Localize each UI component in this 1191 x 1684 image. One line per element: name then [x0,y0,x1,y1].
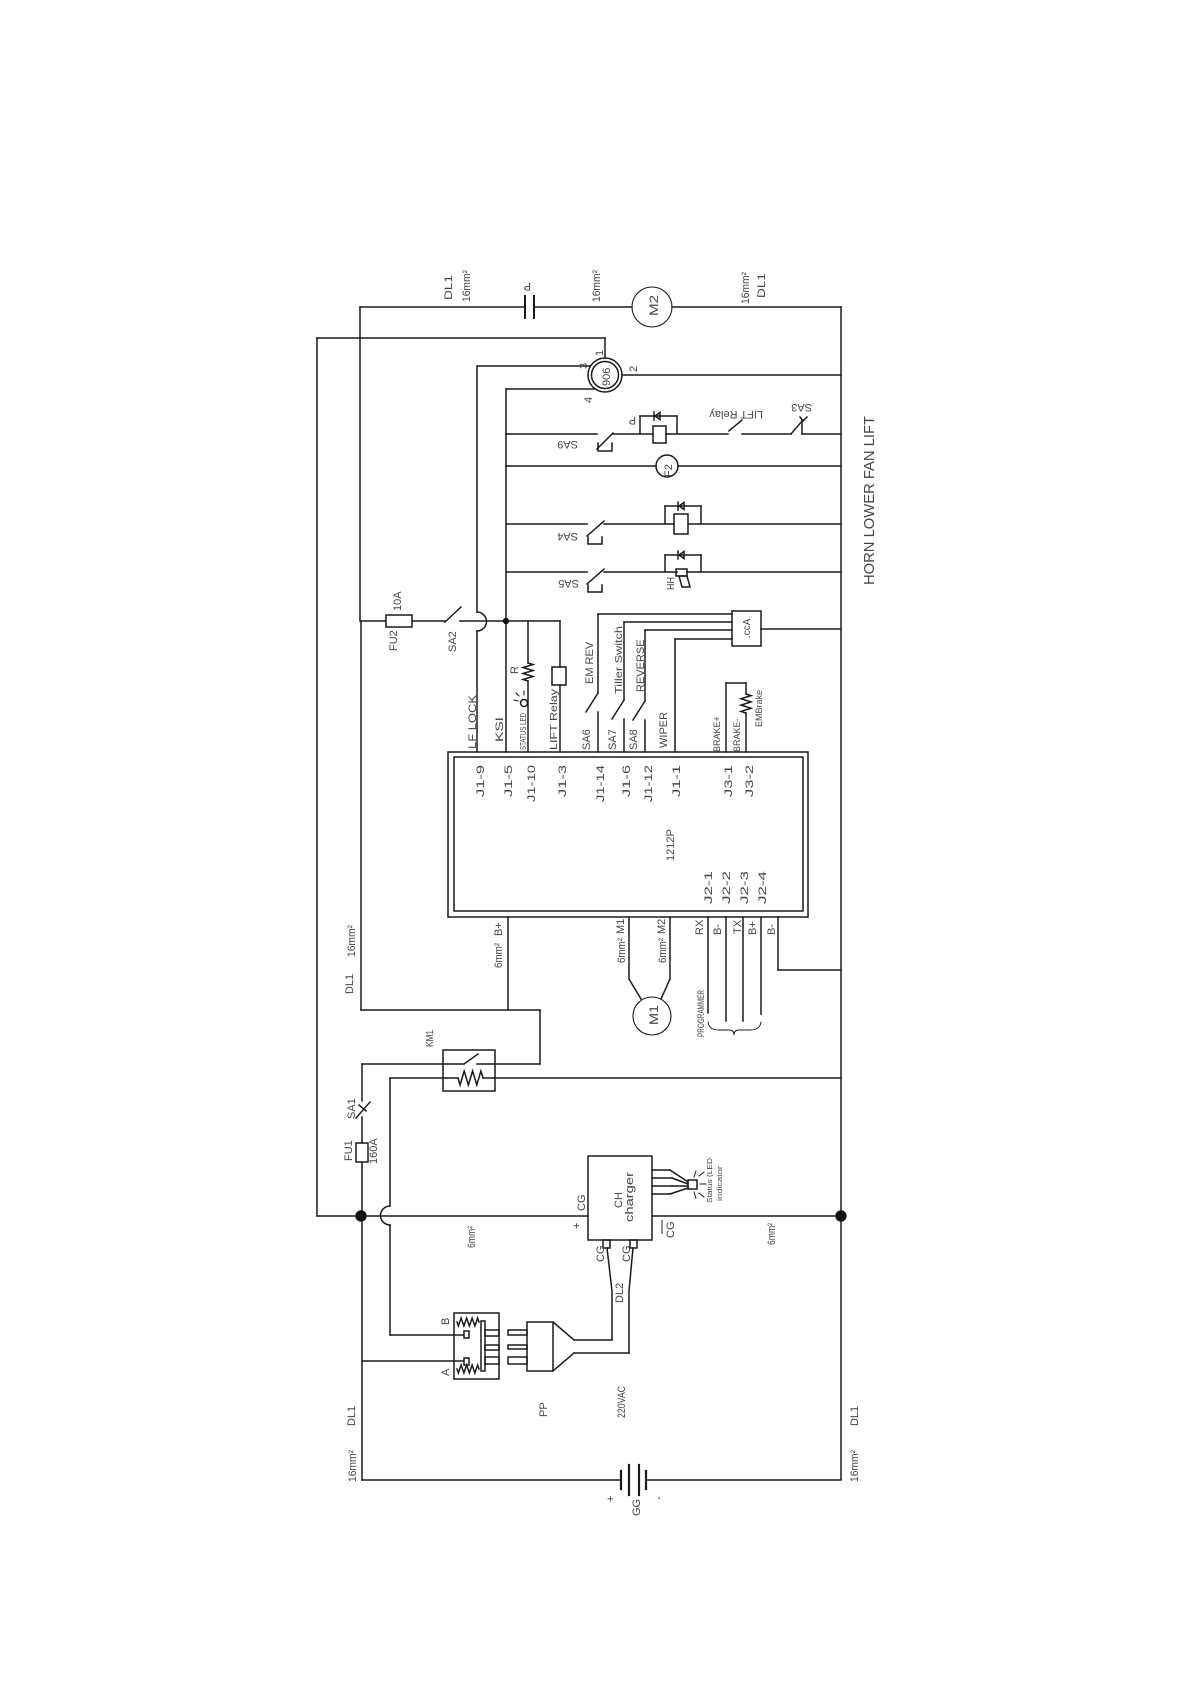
wire B- to bus [778,969,841,971]
wire M2 to corner bus [672,306,841,308]
svg-text:J1-12: J1-12 [643,765,655,802]
REVERSE vertical wire [644,630,646,701]
wire Acc to Tiller Switch [624,621,732,623]
svg-text:REVERSE: REVERSE [635,639,647,692]
switch SA3 actuator tick [800,417,807,421]
wire Acc to EM REV [598,613,732,615]
wire KM1 coil left [390,1077,443,1079]
PP socket pin bar 2 [485,1345,499,1350]
svg-text:J3-1: J3-1 [723,765,735,797]
svg-text:SA7: SA7 [607,729,619,750]
svg-text:.ccA: .ccA [742,618,753,638]
EM REV vertical wire [597,614,599,693]
controller 1212P outer box [448,752,808,917]
svg-text:6mm²: 6mm² [616,938,628,963]
diode bypass left leg (P relay) [639,416,641,434]
svg-text:EMBrake: EMBrake [754,690,764,727]
svg-text:DL1: DL1 [346,1406,358,1426]
PP socket box [454,1313,499,1379]
junction CG- bus [835,1210,846,1221]
wire 906 pin3 to LF LOCK [478,365,590,367]
svg-text:16mm²: 16mm² [591,270,603,302]
svg-text:LF LOCK: LF LOCK [467,694,479,749]
right bus vertical B- (landscape bottom bus) [840,307,842,1479]
wire to PP pin B lower [389,1225,391,1335]
wire B- from controller [777,917,779,970]
svg-text:KM1: KM1 [425,1030,436,1047]
wire battery - side to bus [646,1479,841,1481]
svg-text:16mm²: 16mm² [461,270,473,302]
diode D1 bar [653,412,655,420]
svg-text:P: P [629,414,636,426]
svg-text:16mm²: 16mm² [347,1450,359,1482]
svg-text:GG: GG [631,1499,643,1516]
wire LIFT line from KSI tee to SA9 [506,433,597,435]
wire to PP socket pin B [390,1334,463,1336]
KM1 contact wire right [477,1063,495,1065]
svg-text:DL1: DL1 [443,275,455,300]
wire DL1 to PP socket pin A [362,1360,463,1362]
svg-text:220VAC: 220VAC [616,1386,628,1418]
svg-text:EM REV: EM REV [584,641,596,684]
wire CG right pin to plug [629,1248,633,1353]
fan motor F2 circle [656,455,678,477]
switch SA1 tick [359,1105,366,1111]
wire SA1 to KM1 contact [362,1063,443,1065]
svg-text:HORN LOWER FAN LIFT: HORN LOWER FAN LIFT [862,416,878,585]
overline CG minus [661,1220,663,1234]
fuse FU2 10A [386,615,412,627]
KM1 coil zigzag [458,1071,483,1085]
svg-text:J2-1: J2-1 [703,871,715,904]
svg-text:16mm²: 16mm² [740,272,752,304]
svg-text:J1-10: J1-10 [526,765,538,802]
wire KM1 coil to bus [495,1077,841,1079]
pump relay coil P [653,426,666,443]
wire plug top to CG left [574,1339,612,1341]
svg-text:J2-4: J2-4 [757,871,769,904]
diode D2 triangle [679,503,684,510]
svg-text:PROGRAMMER: PROGRAMMER [696,990,706,1037]
svg-text:RX: RX [694,919,706,935]
svg-text:FU1: FU1 [343,1140,355,1161]
keyswitch 906 inner circle [592,362,619,389]
status LED lamp [688,1180,697,1189]
wire 906 pin4 to KSI [506,388,595,390]
svg-text:16mm²: 16mm² [849,1450,861,1482]
svg-text:SA4: SA4 [557,530,578,542]
wire SA2 to KSI junction [460,620,505,622]
svg-text:B-: B- [712,924,724,935]
horn HH bell [679,576,690,587]
svg-text:3: 3 [578,363,590,369]
switch SA4 bracket [588,537,602,544]
wire lower relay to bus [688,523,841,525]
svg-text:J1-1: J1-1 [671,765,683,797]
switch SA3 stub [801,420,803,434]
svg-text:CG: CG [595,1246,607,1263]
wire SA8 to J1-12 [644,720,646,752]
wire P to motor M2 [534,306,632,308]
PP plug prong 3 [508,1357,527,1364]
wire KM1 coil to PP pin B upper [389,1078,391,1206]
svg-text:J3-2: J3-2 [744,765,756,797]
motor M2 circle [632,287,672,327]
battery plate tall 2 [638,1465,640,1495]
connector P plate 1 [524,296,526,318]
PP plug funnel bottom [553,1353,574,1371]
accessory box Acc. [732,611,761,646]
svg-text:DL2: DL2 [614,1283,626,1303]
svg-text:4: 4 [583,397,595,403]
wire horn to bus [687,571,841,573]
wire 906 pin1 stub [604,338,606,358]
PP socket entry pin B [464,1331,469,1338]
svg-text:M2: M2 [647,295,661,316]
wire M1 slant [629,979,641,999]
svg-text:DL1: DL1 [849,1406,861,1426]
wire +CG charger feed [317,1215,588,1217]
svg-text:J2-2: J2-2 [721,871,733,904]
svg-text:SA2: SA2 [447,631,459,652]
svg-text:SA5: SA5 [558,577,579,589]
svg-text:KSI: KSI [494,717,506,742]
PP socket contact bar [481,1321,485,1371]
svg-text:J1-3: J1-3 [557,765,569,797]
svg-text:160A: 160A [368,1138,380,1164]
svg-text:PP: PP [538,1402,550,1417]
svg-text:SA9: SA9 [557,438,578,450]
charger CH box [588,1156,652,1240]
wire EMBrake top link [726,682,746,684]
PP plug body [527,1322,553,1371]
svg-text:STATUS LED: STATUS LED [518,713,528,750]
KM1 contact wire left [443,1063,464,1065]
wire 906 pin2 to bus [622,374,841,376]
svg-text:2: 2 [628,366,640,372]
status LED rays [694,1171,706,1198]
svg-text:charger: charger [624,1172,636,1222]
svg-text:1: 1 [594,350,606,356]
diode bypass right leg (lower relay) [700,506,702,524]
fuse FU1 160A [356,1143,368,1162]
wire SA1 to FU1 [361,1117,363,1143]
KSI vertical wire upper (906 pin4 down) [505,389,507,621]
svg-text:J1-5: J1-5 [503,765,515,797]
svg-text:B-: B- [766,924,778,935]
svg-text:F2: F2 [663,464,675,477]
LIFT Relay coil box [552,667,566,685]
svg-text:Tiller Switch: Tiller Switch [613,626,625,694]
diode D3 triangle [679,552,684,559]
LIFT Relay contact blade [729,420,742,431]
wire B+ node horizontal [361,1009,540,1011]
lower relay coil [674,514,688,534]
wire EMBrake upper stub [745,683,747,694]
wire battery + side [362,1479,621,1481]
wire KM1 contact to B+ corner [495,1063,540,1065]
wire hop over key line (LF LOCK) [477,612,487,631]
diode bypass left leg (horn) [664,555,666,572]
svg-text:SA3: SA3 [791,401,812,413]
wire LIFT Relay contact to SA3 [742,433,791,435]
svg-text:M2: M2 [656,919,668,934]
wire CG- charger to bus [652,1215,841,1217]
svg-text:TX: TX [732,919,744,934]
svg-text:J1-9: J1-9 [475,765,487,797]
wire LIFT Relay coil to J1-3 [559,685,561,752]
svg-text:BRAKE-: BRAKE- [732,718,742,752]
wire SA7 to J1-6 [623,719,625,752]
KSI vertical wire lower to J1-5 [505,621,507,752]
PP socket entry pin A [464,1358,469,1365]
status LED symbol [521,700,528,707]
svg-text:LIFT Relay: LIFT Relay [709,408,763,420]
wire Acc to WIPER [675,638,732,640]
diode D2 bar [677,502,679,510]
diode bypass left leg (lower relay) [664,506,666,524]
switch SA1 blade [356,1102,370,1118]
connector P plate 2 [533,296,535,318]
svg-text:R: R [509,666,521,674]
svg-text:1212P: 1212P [665,829,677,861]
charger pin CG left [603,1240,610,1248]
wire junction to LIFT relay coil branch [506,620,560,622]
battery plate short 1 [620,1471,622,1489]
svg-text:J2-3: J2-3 [739,871,751,904]
switch SA6 blade [586,693,598,712]
diode bypass right leg (P relay) [676,416,678,434]
svg-text:6mm²: 6mm² [466,1226,478,1248]
wire CG left pin to plug [607,1248,612,1340]
svg-text:B+: B+ [493,922,505,936]
svg-text:Status (LED: Status (LED [705,1157,714,1203]
svg-text:6mm²: 6mm² [766,1223,778,1245]
switch SA8 blade [633,701,645,720]
svg-text:SA1: SA1 [346,1098,358,1119]
wire DL1 16mm2 top bus to connector P [360,306,525,308]
wire SA5 to horn HH [604,571,677,573]
wire M2 slant [661,979,670,999]
svg-text:CG: CG [576,1195,588,1212]
wire FAN line from KSI tee to F2 [506,465,656,467]
svg-text:+: + [605,1496,617,1502]
svg-text:WIPER: WIPER [658,712,670,748]
switch SA3 blade [791,420,803,434]
svg-text:906: 906 [601,368,613,386]
svg-text:DL1: DL1 [344,974,356,994]
programmer brace [708,1022,761,1035]
svg-text:BRAKE+: BRAKE+ [712,716,722,752]
svg-text:6mm²: 6mm² [493,943,505,968]
wire hop over charger feed [381,1206,391,1225]
diode bypass top wire (horn) [665,554,701,556]
svg-text:16mm²: 16mm² [346,925,358,957]
wire LOWER line from KSI tee to SA4 [506,523,587,525]
svg-text:indicator: indicator [715,1165,724,1201]
junction KSI / key line [503,618,509,624]
LF LOCK wire from 906 pin3 down [476,366,478,612]
svg-text:LIFT Relay: LIFT Relay [549,689,560,750]
wire Acc to bus [761,628,841,630]
diode D1 triangle [655,413,660,420]
svg-text:M1: M1 [647,1005,661,1025]
wire Acc to REVERSE [645,629,732,631]
KM1 coil wire inner left [443,1077,458,1079]
svg-text:J1-14: J1-14 [595,765,607,802]
svg-text:A: A [440,1368,452,1376]
diode bypass top wire (P relay) [640,415,677,417]
svg-text:-: - [653,1496,665,1500]
svg-text:10A: 10A [392,591,404,611]
KM1 coil wire inner right [483,1077,495,1079]
wire RX programmer [707,917,709,1013]
wire SA6 to J1-14 [597,712,599,752]
switch SA2 blade [445,607,461,622]
wire TX programmer [742,917,744,1021]
switch SA9 bracket [598,443,612,451]
svg-text:SA8: SA8 [628,729,640,750]
wire B- programmer [725,917,727,1021]
switch SA5 blade [587,569,604,584]
status LED indicator wires [652,1169,670,1171]
vertical wire DL1 left upper [359,307,361,621]
PP socket coil A zigzag [457,1365,479,1373]
diode D3 bar [677,551,679,559]
WIPER wire to J1-1 [674,639,676,752]
svg-text:HH: HH [666,577,677,590]
wire B+ programmer [760,917,762,1014]
wire SA4 to lower relay coil [604,523,674,525]
battery plate tall 1 [628,1465,630,1495]
left outer vertical wire B- return [316,338,318,1216]
wire 906 pin1 horizontal [317,337,605,339]
PP plug prong 2 [508,1345,527,1349]
wire HORN line from KSI tee to SA5 [506,571,587,573]
diode bypass right leg (horn) [700,555,702,572]
motor M1 circle [633,997,671,1035]
wire plug bottom to CG right [574,1352,629,1354]
wire relay to LIFT Relay contact [666,433,728,435]
wire FU2 to SA2 [412,620,445,622]
wire key line to resistor R [527,621,529,663]
wire B+ to KM1 contact [539,1010,541,1064]
svg-text:P: P [524,280,531,292]
wire resistor to LED to J1-10 [527,681,529,752]
svg-text:B+: B+ [747,921,759,935]
wire from DL1 vertical to fuse FU2 [362,620,386,622]
svg-text:CG: CG [621,1246,633,1263]
resistor R zigzag [523,663,533,681]
svg-text:CG: CG [665,1222,677,1239]
svg-text:M1: M1 [615,919,627,934]
wire KM1 line down to SA1 [361,1064,363,1101]
junction charger feed [355,1210,366,1221]
Tiller Switch vertical wire [623,622,625,700]
PP plug funnel top [553,1322,574,1340]
charger pin CG right [630,1240,637,1248]
controller 1212P inner box [454,757,803,911]
svg-text:B: B [440,1318,452,1325]
wire F2 to bus [678,465,841,467]
wire key line to LIFT Relay coil [559,621,561,667]
wire BRAKE- J3-2 [745,713,747,752]
PP plug prong 1 [508,1330,527,1335]
svg-text:6mm²: 6mm² [657,938,669,963]
svg-text:FU2: FU2 [388,630,400,651]
wire SA9 to pump relay coil [613,433,653,435]
diode bypass top wire (lower relay) [665,505,701,507]
battery plate short 2 [645,1471,647,1489]
svg-text:+: + [571,1223,583,1229]
keyswitch 906 outer circle [588,358,622,392]
horn HH body [676,569,687,576]
LF LOCK wire to J1-9 [476,631,478,752]
EMBrake resistor zigzag [741,694,751,713]
svg-text:SA6: SA6 [581,729,593,750]
contactor KM1 box [443,1050,495,1091]
switch SA9 blade [597,433,613,449]
vertical wire DL1 left lower [360,621,362,1010]
wire SA3 to bus [802,433,841,435]
PP socket pin bar 3 [485,1357,499,1364]
wire BRAKE+ J3-1 [725,683,727,752]
switch SA7 blade [612,700,624,719]
switch SA5 bracket [588,585,602,592]
wire B+ from controller [507,917,509,1010]
wire FU1 to battery line [361,1162,363,1480]
wire M1 terminal [628,917,630,979]
wire M2 terminal [669,917,671,979]
PP socket coil B zigzag [457,1318,479,1326]
switch SA4 blade [587,521,604,536]
svg-text:J1-6: J1-6 [621,765,633,797]
svg-text:DL1: DL1 [756,273,768,298]
KM1 contact blade [464,1054,478,1064]
PP socket pin bar 1 [485,1330,499,1336]
